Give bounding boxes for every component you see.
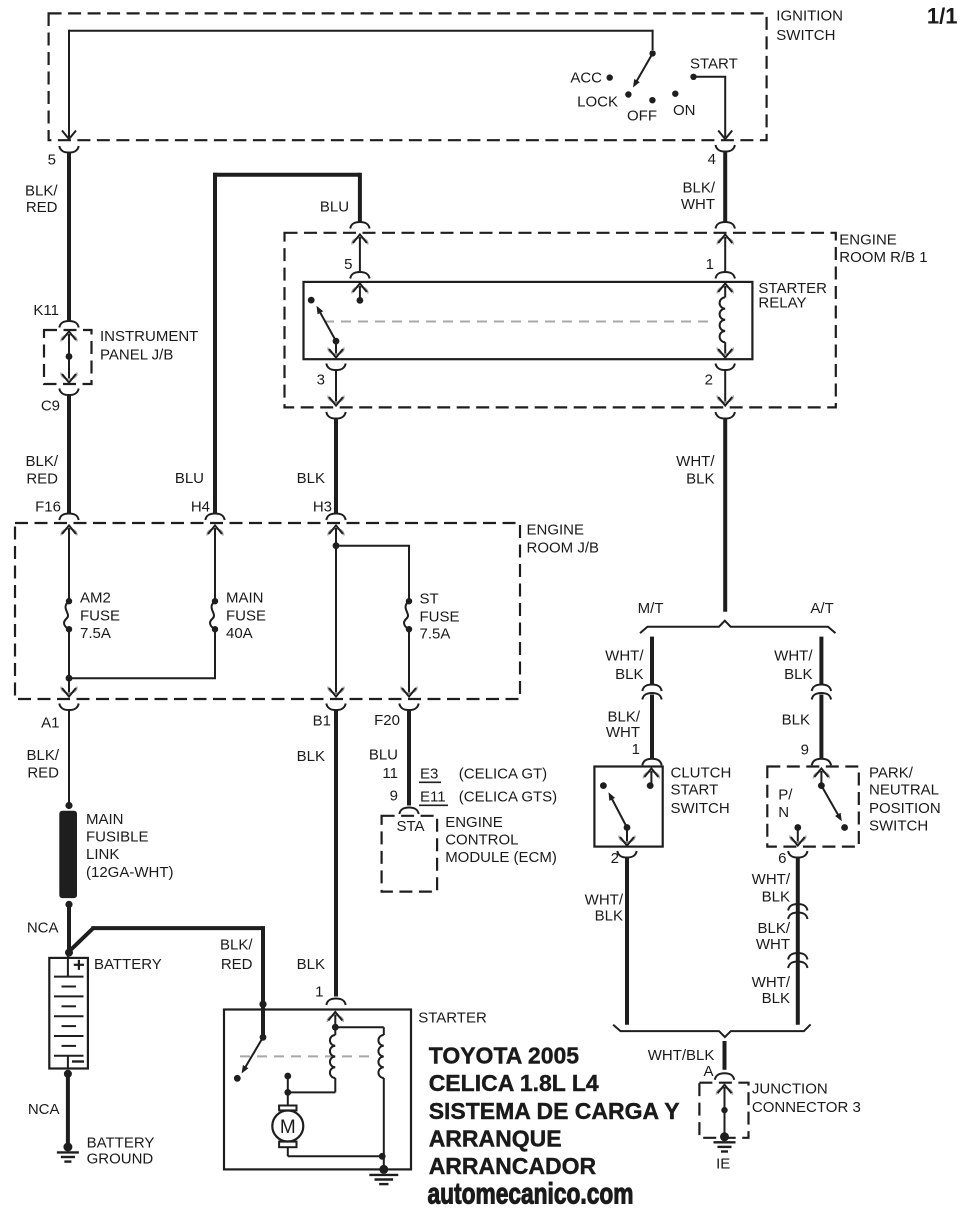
svg-text:MAIN: MAIN [226,590,264,607]
svg-text:RED: RED [221,956,253,973]
svg-text:11: 11 [382,765,398,782]
svg-text:SWITCH: SWITCH [776,27,835,44]
svg-text:NCA: NCA [27,920,59,937]
svg-text:BLK/: BLK/ [757,920,790,937]
svg-text:SISTEMA DE CARGA Y: SISTEMA DE CARGA Y [429,1098,680,1124]
svg-text:H4: H4 [191,498,210,515]
svg-text:9: 9 [801,741,809,758]
svg-text:ROOM R/B 1: ROOM R/B 1 [839,249,927,266]
svg-text:PARK/: PARK/ [869,765,914,782]
svg-text:40A: 40A [226,625,253,642]
svg-text:TOYOTA 2005: TOYOTA 2005 [429,1043,580,1069]
svg-text:RED: RED [26,199,58,216]
svg-text:A1: A1 [41,715,59,732]
svg-text:WHT: WHT [681,196,715,213]
svg-text:B1: B1 [313,713,331,730]
svg-text:H3: H3 [313,498,332,515]
svg-text:P/: P/ [778,787,793,804]
svg-text:5: 5 [344,256,352,273]
svg-text:WHT: WHT [606,724,640,741]
svg-text:BLK: BLK [297,470,325,487]
svg-text:LOCK: LOCK [577,94,618,111]
svg-text:FUSE: FUSE [80,608,120,625]
svg-text:1: 1 [315,984,323,1001]
svg-text:BLK/: BLK/ [25,183,58,200]
svg-text:MAIN: MAIN [86,811,124,828]
svg-text:RED: RED [26,471,58,488]
svg-text:BLK: BLK [595,908,623,925]
svg-text:RELAY: RELAY [758,295,806,312]
svg-text:ENGINE: ENGINE [839,232,897,249]
svg-text:WHT/: WHT/ [605,648,644,665]
svg-text:ARRANQUE: ARRANQUE [429,1126,562,1152]
svg-text:POSITION: POSITION [869,800,941,817]
svg-text:RED: RED [27,765,59,782]
svg-text:automecanico.com: automecanico.com [428,1178,634,1211]
svg-text:FUSE: FUSE [420,609,460,626]
svg-text:WHT/: WHT/ [752,974,791,991]
svg-text:M: M [280,1117,296,1138]
svg-text:NEUTRAL: NEUTRAL [869,782,939,799]
svg-text:ARRANCADOR: ARRANCADOR [429,1153,597,1179]
svg-text:1: 1 [706,256,714,273]
svg-text:7.5A: 7.5A [80,625,111,642]
svg-text:1: 1 [632,741,640,758]
svg-text:BLK/: BLK/ [607,708,640,725]
svg-text:BLK: BLK [782,712,810,729]
svg-text:1/1: 1/1 [927,4,958,29]
svg-text:WHT/: WHT/ [585,891,624,908]
svg-text:MODULE (ECM): MODULE (ECM) [445,849,557,866]
svg-text:2: 2 [611,850,619,867]
svg-text:ON: ON [673,102,696,119]
svg-text:N: N [778,804,789,821]
svg-text:M/T: M/T [638,600,664,617]
svg-text:K11: K11 [33,302,59,319]
svg-text:CELICA 1.8L L4: CELICA 1.8L L4 [429,1070,599,1096]
svg-text:BLK: BLK [784,666,812,683]
svg-text:BLU: BLU [320,198,349,215]
svg-text:C9: C9 [41,398,60,415]
svg-text:BLK: BLK [762,889,790,906]
svg-text:WHT: WHT [756,936,790,953]
svg-text:F20: F20 [374,712,400,729]
svg-text:BLK/: BLK/ [682,179,715,196]
svg-text:E3: E3 [420,765,438,782]
svg-text:4: 4 [708,151,716,168]
svg-text:CONNECTOR 3: CONNECTOR 3 [752,1099,861,1116]
svg-text:BLK: BLK [297,956,325,973]
svg-text:CONTROL: CONTROL [445,832,518,849]
svg-text:ENGINE: ENGINE [527,522,585,539]
svg-text:BLK: BLK [762,990,790,1007]
svg-text:ROOM J/B: ROOM J/B [527,540,600,557]
svg-text:A/T: A/T [810,600,833,617]
svg-text:START: START [690,55,738,72]
svg-text:5: 5 [48,152,56,169]
svg-text:IE: IE [716,1156,730,1173]
svg-text:BATTERY: BATTERY [87,1134,155,1151]
svg-text:WHT/: WHT/ [676,453,715,470]
svg-text:BLK/: BLK/ [26,747,59,764]
svg-text:PANEL J/B: PANEL J/B [100,347,173,364]
svg-text:BLK: BLK [686,471,714,488]
svg-text:9: 9 [390,788,398,805]
svg-text:NCA: NCA [28,1101,60,1118]
svg-text:WHT/: WHT/ [774,648,813,665]
svg-text:ACC: ACC [570,70,602,87]
svg-text:OFF: OFF [627,107,657,124]
svg-text:GROUND: GROUND [87,1150,154,1167]
svg-text:STARTER: STARTER [418,1009,487,1026]
svg-text:BLK/: BLK/ [220,937,253,954]
svg-text:AM2: AM2 [80,590,111,607]
svg-text:INSTRUMENT: INSTRUMENT [100,328,198,345]
svg-text:E11: E11 [420,788,446,805]
svg-text:CLUTCH: CLUTCH [671,765,732,782]
svg-text:LINK: LINK [86,846,119,863]
svg-text:BLK/: BLK/ [25,453,58,470]
svg-text:(CELICA GT): (CELICA GT) [459,765,547,782]
svg-text:BATTERY: BATTERY [94,956,162,973]
svg-text:F16: F16 [35,498,61,515]
svg-text:7.5A: 7.5A [420,626,451,643]
svg-text:FUSIBLE: FUSIBLE [86,829,149,846]
svg-text:STA: STA [397,818,425,835]
svg-text:BLK: BLK [297,748,325,765]
svg-text:(CELICA GTS): (CELICA GTS) [459,788,557,805]
svg-text:SWITCH: SWITCH [869,817,928,834]
svg-text:BLU: BLU [369,746,398,763]
svg-text:2: 2 [705,372,713,389]
svg-text:JUNCTION: JUNCTION [752,1081,828,1098]
svg-text:WHT/: WHT/ [752,871,791,888]
svg-text:3: 3 [317,372,325,389]
svg-text:BLK: BLK [615,666,643,683]
svg-text:IGNITION: IGNITION [776,8,843,25]
svg-text:A: A [703,1063,713,1080]
svg-text:ENGINE: ENGINE [445,814,503,831]
svg-text:START: START [671,782,719,799]
svg-text:(12GA-WHT): (12GA-WHT) [86,864,174,881]
svg-text:BLU: BLU [175,470,204,487]
svg-text:6: 6 [778,850,786,867]
svg-text:SWITCH: SWITCH [671,800,730,817]
svg-text:FUSE: FUSE [226,608,266,625]
svg-text:ST: ST [420,591,439,608]
svg-text:WHT/BLK: WHT/BLK [648,1047,715,1064]
